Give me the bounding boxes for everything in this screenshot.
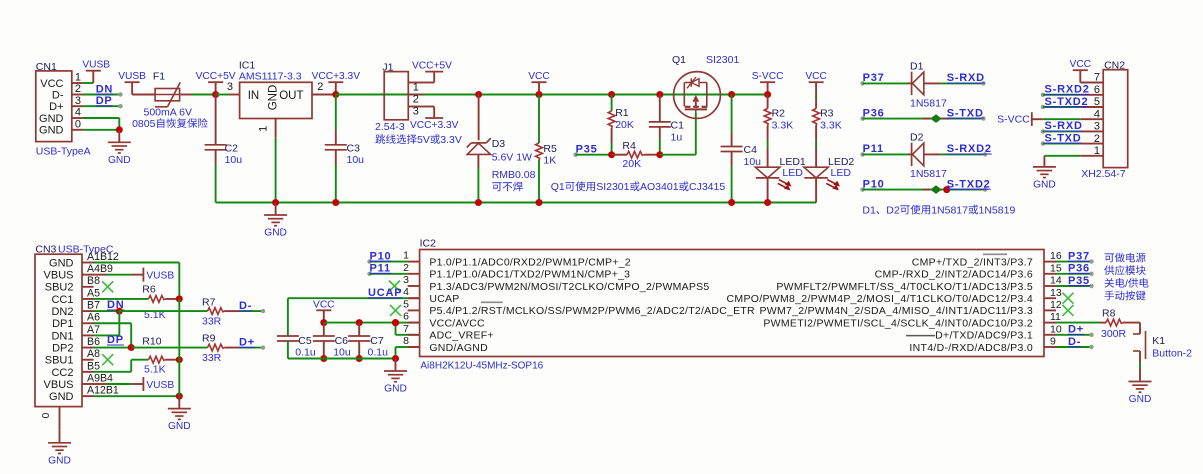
wire VUSB to F1 bbox=[132, 94, 155, 96]
wire DN to R7 bbox=[119, 310, 207, 312]
svg-text:12: 12 bbox=[1050, 299, 1062, 311]
J1 pin numbers bbox=[413, 82, 419, 118]
connector CN2 body bbox=[1103, 70, 1128, 168]
resistor R5 lead lower bbox=[538, 160, 540, 203]
wire CN3 GND A12B1 to bus bbox=[94, 395, 180, 397]
capacitor C6 value 10u bbox=[333, 347, 351, 359]
capacitor C4 lead lower bbox=[731, 152, 733, 203]
junction on P10 wire bbox=[943, 186, 950, 193]
wire P10 to S-TXD2 bbox=[863, 187, 988, 191]
capacitor C3 value 10u bbox=[347, 154, 365, 166]
IC1 pin name IN bbox=[248, 90, 260, 102]
svg-text:10: 10 bbox=[1050, 323, 1062, 335]
resistor R3 designator bbox=[820, 108, 834, 120]
svg-text:C7: C7 bbox=[370, 335, 384, 347]
ground rail top section bbox=[216, 202, 817, 204]
junction VCC rail to IC2 bbox=[392, 319, 399, 326]
svg-text:9: 9 bbox=[1050, 336, 1056, 348]
CN3 ground bus vertical bbox=[178, 299, 180, 396]
svg-text:0.1u: 0.1u bbox=[368, 347, 389, 359]
net label DP at CN3 bbox=[107, 334, 124, 346]
no-connect X at IC2 pin 3 bbox=[389, 281, 400, 292]
capacitor C7 bbox=[348, 336, 370, 341]
svg-text:GND: GND bbox=[49, 391, 74, 403]
connector CN1 designator bbox=[36, 61, 57, 73]
resistor R2 value 3.3K bbox=[772, 120, 794, 132]
IC1 pin 3 number bbox=[227, 81, 233, 93]
wire CN3 GND A1B12 to bus bbox=[94, 263, 180, 299]
diamond junction on P10 wire bbox=[923, 185, 942, 194]
wire CN2 pin 1 to ground bbox=[1044, 156, 1080, 166]
junction ground rail at R5 bbox=[536, 199, 543, 206]
IC IC2 designator bbox=[420, 237, 437, 249]
regulator IC1 value AMS1117-3.3 bbox=[239, 71, 302, 83]
overline prefix before D+ row 10 bbox=[906, 335, 935, 337]
svg-text:P5.4/P1.2/RST/MCLKO/SS/PWM2P/P: P5.4/P1.2/RST/MCLKO/SS/PWM2P/PWM6_2/ADC2… bbox=[429, 305, 755, 317]
svg-text:C1: C1 bbox=[671, 120, 685, 132]
power flag VCC right bbox=[805, 71, 827, 94]
resistor R10 lead right bbox=[166, 359, 180, 361]
capacitor C7 designator bbox=[370, 335, 384, 347]
svg-text:1N5817: 1N5817 bbox=[931, 205, 968, 217]
wire DN from CN1 pin 2 bbox=[83, 92, 123, 96]
svg-text:3.3K: 3.3K bbox=[772, 120, 794, 132]
svg-text:5.6V 1W: 5.6V 1W bbox=[492, 151, 532, 163]
svg-text:C6: C6 bbox=[335, 335, 349, 347]
wire R7 to D- port bbox=[225, 309, 266, 313]
resistor R2 lead upper bbox=[767, 95, 769, 109]
junction rail at C1 bbox=[656, 91, 663, 98]
CN2 value XH2.54-7 bbox=[1081, 168, 1126, 180]
wire LED2 to ground rail bbox=[815, 178, 817, 203]
svg-text:5: 5 bbox=[1094, 96, 1100, 108]
capacitor C4 lead upper bbox=[731, 95, 733, 147]
capacitor C5 designator bbox=[298, 335, 312, 347]
diode D2 value 1N5817 bbox=[910, 168, 947, 180]
net port P36 bbox=[860, 107, 884, 120]
IC2 right pin names bbox=[727, 256, 1033, 353]
power flag S-VCC bbox=[752, 71, 784, 94]
svg-text:AO3401: AO3401 bbox=[640, 181, 679, 193]
svg-text:14: 14 bbox=[1050, 275, 1062, 287]
svg-text:1: 1 bbox=[75, 72, 81, 84]
wire CN1 pin 4 to ground bbox=[83, 118, 119, 130]
svg-text:6: 6 bbox=[403, 311, 409, 323]
capacitor C7 lead upper bbox=[358, 323, 360, 336]
svg-text:K1: K1 bbox=[1152, 335, 1165, 347]
svg-text:C5: C5 bbox=[298, 335, 312, 347]
net port P10 at IC2 bbox=[367, 250, 407, 263]
wire S-RXD to CN2 pin 3 bbox=[1041, 129, 1081, 133]
svg-text:B8: B8 bbox=[87, 275, 100, 287]
capacitor C1 designator bbox=[671, 120, 685, 132]
IC IC2 body bbox=[420, 250, 1044, 357]
svg-text:P10: P10 bbox=[863, 178, 885, 190]
svg-text:GND: GND bbox=[49, 257, 74, 269]
svg-text:VUSB: VUSB bbox=[82, 60, 110, 71]
svg-text:15: 15 bbox=[1050, 262, 1062, 274]
svg-text:1: 1 bbox=[403, 250, 409, 262]
svg-text:11: 11 bbox=[1050, 311, 1061, 323]
svg-text:10u: 10u bbox=[333, 347, 351, 359]
wire P11 to D2 bbox=[863, 153, 912, 155]
comment Q1 alternatives bbox=[551, 181, 726, 193]
svg-text:P37: P37 bbox=[863, 72, 885, 84]
CN3 pin numbers bbox=[87, 251, 119, 397]
svg-text:R10: R10 bbox=[142, 336, 161, 348]
wire J1 pin 3 to VCC+3.3V bbox=[410, 107, 459, 132]
J1 pin stubs bbox=[408, 83, 423, 107]
svg-text:10u: 10u bbox=[347, 154, 365, 166]
CN1 pin names and numbers bbox=[39, 72, 81, 137]
svg-text:D+/TXD/ADC9/P3.1: D+/TXD/ADC9/P3.1 bbox=[935, 330, 1033, 342]
wire P36 to S-TXD bbox=[863, 116, 986, 120]
svg-text:5.1K: 5.1K bbox=[144, 363, 166, 375]
svg-text:OUT: OUT bbox=[279, 90, 303, 102]
fuse F1 comment 0805 bbox=[132, 118, 208, 130]
capacitor C2 lead lower bbox=[215, 150, 217, 203]
svg-text:3: 3 bbox=[1094, 121, 1100, 133]
wire CN3 CC1 to R6 bbox=[94, 298, 149, 300]
junction ground rail at D3 bbox=[475, 199, 482, 206]
resistor R3 value 3.3K bbox=[820, 120, 842, 132]
svg-text:R3: R3 bbox=[820, 108, 834, 120]
resistor R8 designator bbox=[1102, 308, 1116, 320]
svg-text:GND: GND bbox=[39, 113, 64, 125]
wire J1 pin 2 to rail bbox=[423, 94, 479, 96]
svg-text:S-RXD: S-RXD bbox=[1045, 120, 1083, 132]
svg-text:3.3V: 3.3V bbox=[440, 134, 462, 146]
svg-text:P1.3/ADC3/PWM2N/MOSI/T2CLKO/CM: P1.3/ADC3/PWM2N/MOSI/T2CLKO/CMPO_2/PWMAP… bbox=[429, 281, 709, 293]
net label S-RXD2 bbox=[947, 143, 992, 155]
net label S-TXD2 at CN2 bbox=[1045, 96, 1089, 108]
resistor R10 designator bbox=[142, 336, 161, 348]
IC2 right pin numbers bbox=[1050, 250, 1062, 347]
svg-text:A6: A6 bbox=[87, 312, 100, 324]
resistor R2 lead lower bbox=[767, 126, 769, 168]
capacitor C7 lead lower bbox=[358, 341, 360, 359]
junction ground rail at LED1 bbox=[764, 199, 771, 206]
junction bottom rail at C7 bbox=[356, 355, 363, 362]
capacitor C2 value 10u bbox=[225, 154, 243, 166]
net port P10 bbox=[860, 178, 884, 191]
svg-text:1u: 1u bbox=[671, 131, 683, 143]
resistor R4 lead right bbox=[644, 154, 660, 156]
svg-text:GND: GND bbox=[48, 455, 71, 466]
net port D- at IC2 bbox=[1056, 336, 1094, 349]
net label S-RXD bbox=[947, 72, 985, 84]
svg-text:S-RXD: S-RXD bbox=[947, 72, 985, 84]
svg-text:20K: 20K bbox=[615, 119, 634, 131]
svg-text:PWMFLT2/PWMFLT/SS_4/T0CLKO/T1/: PWMFLT2/PWMFLT/SS_4/T0CLKO/T1/ADC13/P3.5 bbox=[776, 281, 1033, 293]
svg-text:500mA 6V: 500mA 6V bbox=[144, 107, 192, 119]
svg-text:3.3K: 3.3K bbox=[820, 120, 842, 132]
connector CN3 designator bbox=[35, 244, 113, 256]
svg-text:IC2: IC2 bbox=[420, 237, 437, 249]
net label DN bbox=[96, 83, 114, 95]
wire UCAP net from IC2 pin 4 bbox=[288, 298, 420, 336]
ground symbol top section bbox=[264, 203, 287, 239]
svg-text:D2: D2 bbox=[886, 205, 900, 217]
resistor R5 bbox=[536, 143, 543, 160]
IC2 left pin stubs bbox=[408, 262, 420, 347]
wire CN1 pin 0 to ground bbox=[83, 129, 119, 131]
svg-text:3: 3 bbox=[403, 274, 409, 286]
VCC rail decoupling bbox=[324, 322, 396, 324]
svg-text:RMB0.08: RMB0.08 bbox=[492, 169, 536, 181]
resistor R6 value 5.1K bbox=[144, 309, 166, 321]
IC1 pin 2 number bbox=[317, 81, 323, 93]
svg-text:VCC: VCC bbox=[313, 299, 335, 310]
svg-text:IN: IN bbox=[248, 90, 260, 102]
capacitor C2 lead upper bbox=[215, 95, 217, 145]
power flag VCC+5V bbox=[196, 71, 236, 94]
wire IC1 pin 1 to ground rail bbox=[275, 138, 277, 203]
wire R8 to K1 bbox=[1123, 323, 1140, 334]
svg-text:2.54-3: 2.54-3 bbox=[375, 121, 405, 133]
svg-text:20K: 20K bbox=[622, 158, 641, 170]
svg-text:C3: C3 bbox=[347, 143, 361, 155]
svg-text:CC1: CC1 bbox=[51, 294, 73, 306]
ground at decoupling rail bbox=[384, 359, 407, 395]
power flag VCC at CN2 pin 7 bbox=[1070, 59, 1092, 82]
diode D3 zener bbox=[467, 138, 491, 154]
diode D3 designator bbox=[492, 138, 506, 150]
svg-text:13: 13 bbox=[1050, 287, 1062, 299]
junction bus at A12B1 bbox=[176, 393, 183, 400]
resistor R4 lead left bbox=[612, 154, 627, 156]
svg-text:PWM7_2/PWM4N_2/SDA_4/MISO_4/IN: PWM7_2/PWM4N_2/SDA_4/MISO_4/INT1/ADC11/P… bbox=[759, 305, 1033, 317]
junction VCC+5V node bbox=[212, 91, 219, 98]
no-connect X at CN3 SBU1 bbox=[102, 354, 113, 365]
svg-text:DP: DP bbox=[107, 334, 124, 346]
transistor Q1 designator bbox=[672, 54, 686, 66]
resistor R10 bbox=[149, 356, 166, 363]
net port D+ at IC2 bbox=[1056, 324, 1094, 337]
svg-text:A7: A7 bbox=[87, 324, 100, 336]
IC1 pin 1 stub bbox=[275, 119, 277, 138]
wire CN3 VBUS A9B4 to VUSB bbox=[94, 377, 175, 391]
svg-text:VUSB: VUSB bbox=[146, 380, 174, 391]
junction rail at C4 bbox=[728, 91, 735, 98]
svg-text:DN2: DN2 bbox=[51, 306, 73, 318]
IC1 pin 1 number bbox=[258, 126, 270, 132]
ground at CN3 bus bbox=[168, 396, 191, 432]
wire VCC to IC2 pin 6 bbox=[396, 322, 420, 324]
ground at CN3 pin 0 bbox=[48, 430, 71, 466]
wire S-TXD to CN2 pin 2 bbox=[1041, 141, 1081, 145]
LED LED2 bbox=[804, 167, 840, 190]
svg-text:R8: R8 bbox=[1102, 308, 1116, 320]
capacitor C6 designator bbox=[335, 335, 349, 347]
svg-text:VCC+5V: VCC+5V bbox=[412, 61, 452, 72]
IC2 left pin names bbox=[429, 256, 755, 353]
resistor R3 lead lower bbox=[815, 126, 817, 168]
LED2 designator bbox=[828, 156, 854, 168]
main VCC rail bbox=[336, 94, 768, 96]
resistor R2 bbox=[764, 109, 771, 126]
resistor R1 lead upper bbox=[611, 95, 613, 112]
fuse F1 value 500mA 6V bbox=[144, 107, 192, 119]
svg-text:VCC: VCC bbox=[1070, 59, 1092, 70]
net port P35 at IC2 bbox=[1056, 275, 1094, 288]
svg-text:PWMETI2/PWMETI/SCL_4/SCLK_4/IN: PWMETI2/PWMETI/SCL_4/SCLK_4/INT0/ADC10/P… bbox=[763, 317, 1033, 329]
svg-text:2: 2 bbox=[403, 262, 409, 274]
ground at CN2 bbox=[1033, 165, 1056, 190]
diode D1 1N5817 bbox=[912, 72, 924, 95]
resistor R5 lead upper bbox=[538, 95, 540, 144]
junction bottom rail at C6 bbox=[320, 355, 327, 362]
resistor R9 designator bbox=[202, 333, 216, 345]
svg-text:P37: P37 bbox=[1068, 250, 1090, 262]
no-connect X at IC2 pin 13 bbox=[1063, 293, 1074, 304]
svg-text:1N5817: 1N5817 bbox=[910, 168, 947, 180]
svg-text:D3: D3 bbox=[492, 138, 506, 150]
connector CN3 body bbox=[35, 254, 82, 406]
LED1 designator bbox=[780, 156, 806, 168]
svg-text:Ai8H2K12U-45MHz-SOP16: Ai8H2K12U-45MHz-SOP16 bbox=[420, 360, 543, 371]
svg-text:R7: R7 bbox=[202, 297, 216, 309]
connector CN2 designator bbox=[1104, 59, 1125, 71]
svg-text:P10: P10 bbox=[370, 250, 392, 262]
diode D3 value 5.6V 1W bbox=[492, 151, 532, 163]
svg-text:CMPO/PWM8_2/PWM4P_2/MOSI_4/T1C: CMPO/PWM8_2/PWM4P_2/MOSI_4/T1CLKO/T0/ADC… bbox=[727, 293, 1033, 305]
svg-text:3: 3 bbox=[75, 95, 81, 107]
IC1 pin name GND rotated bbox=[268, 85, 280, 111]
resistor R4 bbox=[627, 151, 644, 158]
wire rail to D3 bbox=[478, 95, 480, 141]
resistor R6 lead right bbox=[166, 298, 180, 300]
svg-text:1: 1 bbox=[1094, 145, 1100, 157]
svg-text:/: / bbox=[1125, 278, 1128, 290]
svg-text:S-VCC: S-VCC bbox=[997, 114, 1030, 126]
svg-text:VCC: VCC bbox=[40, 78, 63, 90]
svg-text:GND: GND bbox=[268, 85, 280, 111]
no-connect X at CN3 SBU2 bbox=[102, 281, 113, 292]
wire R9 to D+ port bbox=[225, 345, 266, 349]
resistor R5 value 1K bbox=[543, 155, 556, 167]
CN3 pin stubs bbox=[82, 263, 94, 397]
svg-text:1: 1 bbox=[258, 126, 270, 132]
svg-text:2: 2 bbox=[1094, 133, 1100, 145]
wire IC2 pin 8 to ground bbox=[396, 347, 420, 359]
ground at K1 bbox=[1129, 380, 1152, 405]
svg-text:DP2: DP2 bbox=[52, 342, 73, 354]
junction P35 node at R1 bbox=[608, 151, 615, 158]
svg-text:R9: R9 bbox=[202, 333, 216, 345]
wire S-RXD2 to CN2 pin 6 bbox=[1041, 93, 1081, 97]
svg-text:0: 0 bbox=[75, 119, 81, 131]
power flag VUSB at CN1 pin 1 bbox=[82, 60, 110, 83]
diamond junction on P36 wire bbox=[923, 114, 949, 123]
resistor R8 value 300R bbox=[1101, 328, 1127, 340]
svg-text:S-RXD2: S-RXD2 bbox=[1045, 84, 1090, 96]
capacitor C6 bbox=[313, 336, 335, 341]
svg-text:1N5819: 1N5819 bbox=[979, 205, 1016, 217]
svg-text:VCC+3.3V: VCC+3.3V bbox=[410, 120, 459, 131]
diode D2 1N5817 bbox=[912, 143, 924, 166]
J1 comment jumper select bbox=[375, 134, 462, 146]
svg-text:CC2: CC2 bbox=[51, 367, 73, 379]
svg-text:4: 4 bbox=[403, 286, 409, 298]
svg-text:GND/AGND: GND/AGND bbox=[429, 342, 488, 354]
svg-text:A1B12: A1B12 bbox=[87, 251, 119, 263]
svg-text:2: 2 bbox=[75, 83, 81, 95]
svg-text:R4: R4 bbox=[622, 140, 636, 152]
power flag VCC+3.3V bbox=[312, 71, 361, 94]
svg-text:A8: A8 bbox=[87, 348, 100, 360]
resistor R7 designator bbox=[202, 297, 216, 309]
svg-text:2: 2 bbox=[317, 81, 323, 93]
wire DN2 row bbox=[94, 310, 120, 312]
capacitor C1 bbox=[649, 122, 671, 127]
IC1 pin 2 stub bbox=[312, 94, 336, 96]
LED2 value LED bbox=[831, 167, 852, 179]
svg-text:UCAP: UCAP bbox=[368, 287, 402, 299]
svg-text:P11: P11 bbox=[863, 143, 884, 155]
svg-text:ADC_VREF+: ADC_VREF+ bbox=[429, 330, 493, 342]
net port P37 at IC2 bbox=[1056, 250, 1094, 263]
ground under CN1 bbox=[108, 130, 131, 166]
capacitor C1 lead upper bbox=[659, 95, 661, 122]
svg-text:D-: D- bbox=[1068, 336, 1081, 348]
net label D- bbox=[239, 300, 252, 312]
svg-text:10u: 10u bbox=[744, 156, 762, 168]
svg-text:GND: GND bbox=[39, 125, 64, 137]
CN1 pin stubs bbox=[72, 83, 83, 130]
capacitor C4 value 10u bbox=[744, 156, 762, 168]
svg-text:4: 4 bbox=[75, 107, 81, 119]
wire DP from CN1 pin 3 bbox=[83, 104, 123, 108]
svg-text:S-TXD2: S-TXD2 bbox=[1045, 96, 1089, 108]
junction ground rail at C3 bbox=[332, 199, 339, 206]
power flag VUSB at fuse input bbox=[118, 71, 146, 94]
svg-text:SBU1: SBU1 bbox=[45, 355, 74, 367]
svg-text:B6: B6 bbox=[87, 336, 100, 348]
wire LED1 to ground rail bbox=[767, 178, 769, 203]
junction bottom rail at ground bbox=[392, 355, 399, 362]
CN3 pin names bbox=[44, 257, 74, 403]
net label D+ bbox=[239, 337, 255, 349]
svg-text:D+: D+ bbox=[239, 337, 255, 349]
connector J1 body bbox=[384, 72, 408, 120]
wire DP2 row bbox=[94, 347, 132, 349]
svg-text:GND: GND bbox=[168, 421, 191, 432]
resistor R3 bbox=[813, 109, 820, 126]
resistor R6 bbox=[149, 296, 166, 303]
wire DN vertical to DN1 bbox=[94, 311, 120, 335]
svg-text:S-TXD: S-TXD bbox=[947, 107, 984, 119]
svg-text:GND: GND bbox=[384, 384, 407, 395]
resistor R7 value 33R bbox=[202, 316, 222, 328]
wire D1 to S-RXD bbox=[924, 81, 986, 85]
net port P11 bbox=[860, 143, 884, 156]
transistor Q1 SI2301 PMOS symbol bbox=[674, 72, 721, 119]
junction at CN1 ground bbox=[116, 126, 123, 133]
connector CN1 USB-TypeA body bbox=[36, 71, 72, 142]
junction DP node bbox=[128, 344, 135, 351]
svg-text:6: 6 bbox=[1094, 84, 1100, 96]
wire D2 to S-RXD2 bbox=[924, 152, 987, 156]
svg-text:DP: DP bbox=[96, 95, 113, 107]
svg-text:D-: D- bbox=[52, 89, 64, 101]
button K1 value Button-2 bbox=[1152, 348, 1192, 360]
wire DP to R9 bbox=[131, 347, 207, 349]
capacitor C6 lead lower bbox=[323, 341, 325, 359]
svg-text:GND: GND bbox=[108, 155, 131, 166]
resistor R8 bbox=[1106, 319, 1123, 326]
button K1 designator bbox=[1152, 335, 1165, 347]
